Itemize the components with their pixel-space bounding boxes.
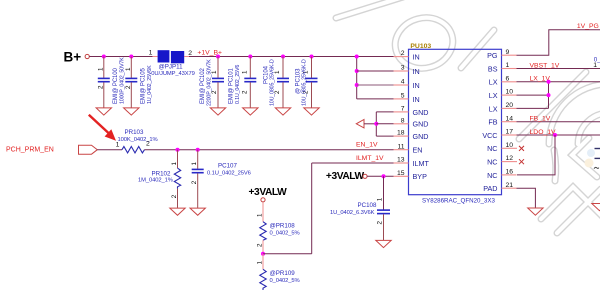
svg-text:16: 16: [506, 169, 514, 176]
svg-text:2: 2: [171, 194, 178, 198]
svg-text:8: 8: [401, 117, 405, 124]
wire LX net pin6: [517, 81, 600, 83]
wire B+ rail left: [89, 56, 152, 58]
svg-text:1: 1: [149, 50, 153, 57]
svg-text:18: 18: [397, 130, 405, 137]
pin 1 BS: [488, 62, 517, 73]
pin 8 GND: [394, 117, 429, 128]
junction node PC104: [281, 55, 285, 59]
junction LX pin6: [547, 80, 551, 84]
svg-text:1U_0402_6.3V6K: 1U_0402_6.3V6K: [330, 210, 375, 216]
svg-text:1: 1: [116, 141, 120, 148]
svg-text:7: 7: [401, 106, 405, 113]
svg-text:PAD: PAD: [483, 184, 497, 193]
svg-text:+3VALW: +3VALW: [249, 187, 288, 198]
pin 20 LX: [489, 102, 517, 113]
power symbol B+: [64, 50, 90, 65]
junction IN bus pin3: [355, 69, 359, 73]
pin 7 GND: [394, 106, 429, 117]
svg-text:2: 2: [256, 243, 263, 247]
wire ground arrow to bus: [364, 123, 376, 125]
svg-text:GND: GND: [413, 108, 429, 117]
svg-text:0_0402_5%: 0_0402_5%: [270, 278, 300, 284]
pin 10 NC: [487, 142, 517, 153]
svg-text:B+: B+: [64, 50, 82, 65]
svg-text:2: 2: [241, 90, 248, 94]
svg-text:@PR109: @PR109: [270, 270, 296, 277]
svg-text:IN: IN: [413, 81, 420, 90]
svg-text:1: 1: [593, 62, 597, 69]
pin 3 IN: [394, 65, 420, 76]
wire LDO to pin16: [517, 135, 555, 175]
wire IN bus vertical: [356, 57, 358, 99]
pin 10 LX: [489, 89, 517, 100]
wire FB net: [517, 121, 600, 123]
pin 5 IN: [394, 93, 420, 104]
svg-text:@PJP11: @PJP11: [159, 64, 184, 71]
svg-text:PC108: PC108: [358, 202, 377, 209]
capacitor PC108: [330, 176, 390, 240]
capacitor PC105: [125, 57, 153, 108]
wire PAD to ground: [517, 188, 536, 208]
pin 6 LX: [489, 75, 517, 86]
svg-text:EMI@ PC105: EMI@ PC105: [141, 67, 147, 104]
junction LDO: [553, 133, 557, 137]
svg-text:1: 1: [98, 67, 105, 71]
svg-text:10U_0805_25V6K-D: 10U_0805_25V6K-D: [270, 59, 276, 106]
ground right edge: [592, 204, 600, 211]
wire ILMT horizontal: [312, 162, 394, 164]
pin 18 GND: [394, 130, 429, 141]
resistor PR103: [116, 129, 158, 153]
capacitor PC104: [264, 57, 290, 108]
svg-text:2200P_0402_50V7K: 2200P_0402_50V7K: [207, 59, 213, 106]
wire to pin 3: [357, 70, 394, 72]
pin 11 EN: [394, 143, 423, 154]
wire B+ rail right of jumper: [189, 56, 394, 58]
jumper PJP11: [149, 50, 195, 77]
ground arrow symbol (GND pins): [356, 120, 364, 128]
wire EN net right: [145, 149, 394, 151]
svg-text:NC: NC: [487, 144, 497, 153]
svg-text:100K_0402_1%: 100K_0402_1%: [118, 137, 158, 143]
pin 2 IN: [394, 50, 420, 61]
wire to pin 4: [357, 84, 394, 86]
wire to pin 8: [376, 123, 393, 125]
svg-text:IN: IN: [413, 67, 420, 76]
svg-text:1: 1: [125, 67, 132, 71]
resistor PR102: [138, 150, 181, 208]
svg-text:PG: PG: [487, 51, 498, 60]
svg-text:EMI@ PC101: EMI@ PC101: [229, 67, 235, 104]
wire ILMT riser: [311, 163, 313, 254]
pin 9 PG: [487, 49, 516, 60]
svg-text:IN: IN: [413, 53, 420, 62]
pin 13 ILMT: [394, 157, 430, 168]
pin 14 FB: [488, 115, 516, 126]
junction node PC105: [129, 55, 133, 59]
ground PC108: [376, 240, 391, 247]
svg-text:10: 10: [506, 142, 514, 149]
junction PR108/PR109: [261, 252, 265, 256]
svg-text:13: 13: [397, 157, 405, 164]
svg-text:1: 1: [171, 162, 178, 166]
svg-text:EMI@ PC102: EMI@ PC102: [200, 67, 206, 104]
svg-text:1000P_0402_50V7K: 1000P_0402_50V7K: [120, 57, 126, 104]
svg-text:2: 2: [146, 141, 150, 148]
svg-text:0.1U_0402_25V6: 0.1U_0402_25V6: [207, 170, 251, 176]
svg-text:15: 15: [397, 170, 405, 177]
wire junction to ILMT riser: [263, 253, 312, 255]
svg-text:GND: GND: [413, 120, 429, 129]
svg-text:SY8286RAC_QFN20_3X3: SY8286RAC_QFN20_3X3: [422, 198, 495, 205]
svg-text:ILMT: ILMT: [413, 159, 430, 168]
ground PC107: [190, 208, 205, 215]
svg-text:2: 2: [188, 50, 192, 57]
svg-text:1: 1: [506, 62, 510, 69]
svg-text:PR103: PR103: [125, 129, 144, 136]
wire EN net left: [97, 149, 122, 151]
svg-text:14: 14: [506, 115, 514, 122]
svg-text:0U/JUMP_43X79: 0U/JUMP_43X79: [151, 71, 195, 77]
svg-text:1V_PG: 1V_PG: [577, 23, 599, 30]
svg-text:EN_1V: EN_1V: [356, 141, 378, 148]
pin 17 VCC: [482, 129, 516, 140]
junction node PC102: [216, 55, 220, 59]
pin 12 NC: [487, 155, 517, 166]
wire PG net: [517, 30, 600, 55]
wire LX pin20: [517, 107, 549, 109]
ground PR102: [170, 208, 185, 215]
svg-text:1: 1: [377, 197, 384, 201]
svg-text:@PR108: @PR108: [270, 222, 296, 229]
svg-text:VCC: VCC: [482, 131, 497, 140]
junction node PC103: [310, 55, 314, 59]
ground PC105: [124, 108, 139, 115]
svg-text:EMI@ PC100: EMI@ PC100: [113, 67, 119, 104]
junction GND bus pin8: [374, 122, 378, 126]
junction IN bus at rail: [355, 55, 359, 59]
svg-text:10U_0805_25V6K-D: 10U_0805_25V6K-D: [302, 59, 308, 106]
resistor PR108: [256, 202, 299, 254]
svg-text:+3VALW: +3VALW: [326, 171, 365, 182]
svg-text:LX: LX: [489, 104, 498, 113]
wire to pin 5: [357, 98, 394, 100]
svg-text:LX: LX: [489, 78, 498, 87]
junction IN bus pin4: [355, 83, 359, 87]
svg-text:PU103: PU103: [410, 43, 431, 50]
off-page connector PCH_PRM_EN: [6, 145, 97, 154]
capacitor PC103: [296, 57, 318, 108]
ground PC102: [210, 108, 225, 115]
svg-text:0.1U_0402_25V6: 0.1U_0402_25V6: [235, 65, 241, 104]
svg-text:ILMT_1V: ILMT_1V: [356, 155, 384, 162]
svg-text:1: 1: [256, 261, 263, 265]
svg-text:11: 11: [397, 143, 404, 150]
ground PC104: [275, 108, 290, 115]
svg-text:6: 6: [506, 75, 510, 82]
ground PC103: [304, 108, 319, 115]
wire GND bus vertical: [375, 112, 377, 136]
svg-text:PCH_PRM_EN: PCH_PRM_EN: [6, 147, 54, 154]
annotation red arrow: [89, 115, 116, 141]
pin 16 NC: [487, 169, 516, 180]
svg-text:LDO_1V: LDO_1V: [530, 129, 557, 136]
capacitor PC102: [200, 57, 224, 108]
svg-text:21: 21: [506, 182, 514, 189]
capacitor PC107: [191, 150, 251, 208]
wire LDO net: [517, 134, 600, 136]
svg-text:2: 2: [377, 221, 384, 225]
ground PAD: [528, 208, 543, 215]
svg-text:2: 2: [191, 180, 198, 184]
no-connect X pin 12: [519, 159, 524, 164]
svg-text:1: 1: [256, 213, 263, 217]
svg-text:PC107: PC107: [218, 163, 237, 170]
svg-text:GND: GND: [413, 132, 429, 141]
svg-text:PR102: PR102: [152, 170, 171, 177]
svg-text:3: 3: [401, 65, 405, 72]
op IC PU103 SY8286RAC: [394, 43, 518, 205]
svg-text:LX: LX: [489, 91, 498, 100]
svg-text:5: 5: [401, 93, 405, 100]
svg-text:2: 2: [98, 85, 105, 89]
pin 21 PAD: [483, 182, 516, 193]
no-connect X pin 10: [519, 146, 524, 151]
svg-text:4: 4: [401, 79, 405, 86]
wire to pin 7: [376, 111, 393, 113]
svg-text:9: 9: [506, 49, 510, 56]
junction LX pin10: [547, 93, 551, 97]
svg-text:BYP: BYP: [413, 172, 428, 181]
svg-text:2: 2: [125, 85, 132, 89]
ground PC101: [243, 108, 258, 115]
junction node PC100: [102, 55, 106, 59]
svg-text:FB_1V: FB_1V: [530, 116, 551, 123]
junction PC107: [196, 148, 200, 152]
svg-text:BS: BS: [488, 64, 498, 73]
svg-text:1: 1: [191, 162, 198, 166]
svg-text:FB: FB: [488, 118, 497, 127]
svg-text:IN: IN: [413, 95, 420, 104]
svg-text:1M_0402_1%: 1M_0402_1%: [138, 178, 173, 184]
power symbol +3VALW (left): [249, 187, 288, 202]
svg-text:NC: NC: [487, 158, 497, 167]
pin 4 IN: [394, 79, 420, 90]
pin 15 BYP: [394, 170, 428, 181]
svg-text:EN: EN: [413, 146, 423, 155]
wire VBST net: [517, 68, 600, 70]
svg-text:2: 2: [401, 50, 405, 57]
junction BYP/PC108: [382, 174, 386, 178]
capacitor PC101: [229, 57, 257, 108]
svg-text:1: 1: [241, 70, 248, 74]
junction PR102: [176, 148, 180, 152]
svg-text:NC: NC: [487, 171, 497, 180]
ground PC100: [96, 108, 111, 115]
power symbol +3VALW (right): [326, 171, 367, 182]
wire to pin 18: [376, 135, 393, 137]
wire LX pin10: [517, 94, 549, 96]
svg-text:VBST_1V: VBST_1V: [530, 62, 560, 69]
wire BYP: [367, 175, 393, 177]
svg-text:17: 17: [506, 129, 514, 136]
svg-text:0_0402_5%: 0_0402_5%: [270, 230, 300, 236]
wire LX bus vertical: [548, 82, 550, 109]
svg-text:20: 20: [506, 102, 514, 109]
capacitor PC100: [98, 57, 126, 108]
svg-text:12: 12: [506, 155, 514, 162]
junction node PC101: [248, 55, 252, 59]
svg-text:10: 10: [506, 89, 514, 96]
resistor PR109: [256, 254, 299, 290]
